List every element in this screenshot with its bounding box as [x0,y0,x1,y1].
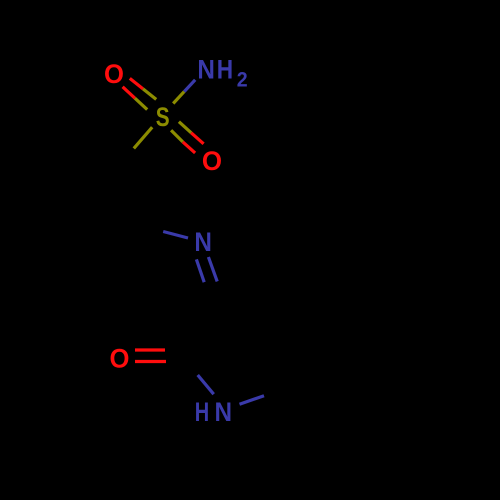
bond S=O1 line B red half [123,87,135,98]
bond S-CH2 yellow half [134,127,152,148]
atom H of sulfonamide NH2 label [217,55,233,85]
bond C2=O3 upper line red half [135,348,165,351]
atom N of sulfonamide NH2 label [197,55,215,84]
bond S=O2 line B red half [183,142,195,153]
bond N3=C3 left line blue half [196,259,204,282]
atom N3 imine nitrogen [194,228,212,257]
bond N1-C2 blue half [198,375,214,394]
atom O3 lactam oxygen [110,343,130,374]
bond S=O1 line A yellow half [143,89,156,100]
bond N3=C3 right line blue half [208,257,217,281]
bond S-N(H2) blue half [184,80,195,92]
svg-text:2: 2 [237,68,248,92]
svg-text:H: H [195,397,209,428]
bond S=O1 line A red half [130,78,143,89]
svg-text:H: H [217,55,233,85]
bond C2=O3 lower line red half [135,360,166,363]
svg-text:O: O [202,145,222,176]
bond N1-C7a blue half [240,396,265,405]
atom S sulfonyl sulfur [156,103,170,133]
atom O1 sulfonyl oxygen upper-left [104,58,124,89]
svg-text:O: O [104,58,124,89]
bond S=O1 line B yellow half [135,98,147,109]
bond S=O2 line A yellow half [179,122,191,133]
atom O2 sulfonyl oxygen lower-right [202,145,222,176]
bond S=O2 line B yellow half [171,130,183,142]
bond S-N(H2) yellow half [173,92,184,104]
atom H of lactam HN label [195,397,209,428]
svg-text:N: N [197,55,215,84]
bond CH2-N3 blue half [163,232,188,239]
bond S=O2 line A red half [191,133,203,144]
atom N1 of lactam HN label [215,398,233,427]
svg-text:N: N [215,398,233,427]
subscript 2 of sulfonamide NH2 label [237,68,248,92]
svg-text:S: S [156,103,170,133]
svg-text:O: O [110,343,130,374]
svg-text:N: N [194,228,212,257]
